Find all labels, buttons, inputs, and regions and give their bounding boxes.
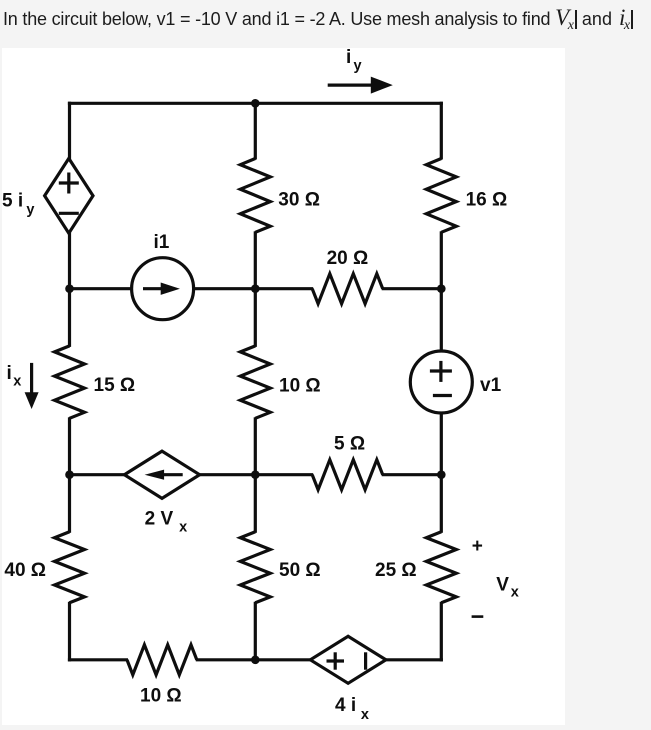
node B left row3	[65, 470, 74, 479]
svg-text:V: V	[496, 574, 509, 595]
label minus Vx	[472, 615, 484, 618]
label iy	[346, 47, 362, 74]
svg-text:20 Ω: 20 Ω	[327, 248, 369, 269]
svg-text:50 Ω: 50 Ω	[279, 560, 321, 581]
wire middle rail row3 to 50ohm	[254, 475, 257, 533]
svg-text:16 Ω: 16 Ω	[466, 190, 508, 211]
svg-text:+: +	[472, 536, 483, 557]
svg-text:x: x	[13, 374, 21, 390]
node D middle row2	[251, 284, 260, 293]
wire left rail 5iy to row2	[68, 232, 71, 289]
label ix	[7, 363, 22, 390]
wire middle node to 20ohm	[255, 287, 313, 290]
resistor 10ohm bottom	[127, 645, 197, 675]
wire top horizontal	[68, 102, 443, 105]
wire 2Vx to middle node	[198, 473, 255, 476]
wire left rail above 5iy source	[68, 102, 71, 160]
wire left rail 15ohm to row3	[68, 417, 71, 474]
svg-text:y: y	[354, 58, 362, 74]
svg-text:30 Ω: 30 Ω	[278, 190, 320, 211]
wire middle rail 10ohm to row3	[254, 417, 257, 474]
wire left rail 40ohm to bottom	[68, 602, 71, 662]
svg-text:40 Ω: 40 Ω	[4, 560, 46, 581]
wire middle node to 5ohm	[255, 473, 313, 476]
label 5iy	[2, 191, 34, 219]
wire middle rail top to 30ohm	[254, 103, 257, 159]
current source i1 (circle)	[132, 258, 194, 320]
svg-text:x: x	[361, 707, 369, 723]
svg-text:2 V: 2 V	[145, 509, 174, 530]
label 2Vx	[145, 509, 188, 536]
resistor 50ohm	[240, 532, 270, 603]
wire bottom left segment	[68, 658, 128, 661]
wire right rail top to 16ohm	[440, 102, 443, 160]
wire left rail row2 to 15ohm	[68, 289, 71, 347]
wire right rail 25ohm to bottom	[440, 602, 443, 662]
svg-text:i: i	[7, 363, 12, 384]
resistor 40ohm	[55, 532, 85, 603]
wire row3 left to 2Vx source	[70, 473, 127, 476]
wire 5ohm to right node	[382, 473, 442, 476]
resistor 25ohm	[426, 532, 456, 603]
node F middle bottom	[251, 656, 260, 665]
svg-text:15 Ω: 15 Ω	[94, 375, 136, 396]
label 4ix	[335, 695, 369, 723]
node C top middle	[251, 99, 260, 108]
voltage source v1 (circle)	[410, 351, 472, 413]
problem statement text	[3, 4, 651, 34]
resistor 16ohm	[426, 159, 456, 233]
dependent source 2Vx (diamond)	[124, 451, 199, 498]
svg-text:i: i	[346, 47, 351, 68]
resistor 5ohm	[312, 460, 383, 490]
wire row2 left to i1	[70, 287, 134, 290]
node A left row2	[65, 284, 74, 293]
wire 10ohm bottom to middle node	[196, 658, 256, 661]
svg-text:x: x	[179, 520, 187, 536]
current arrow iy	[328, 77, 393, 94]
wire i1 to middle node	[192, 287, 255, 290]
node E middle row3	[251, 470, 260, 479]
svg-text:y: y	[26, 202, 34, 218]
svg-text:25 Ω: 25 Ω	[375, 560, 417, 581]
svg-text:v1: v1	[480, 375, 502, 396]
resistor 30ohm	[240, 159, 270, 233]
resistor 20ohm	[312, 274, 383, 304]
dependent source 4ix (diamond)	[310, 636, 386, 683]
node G right row2	[437, 284, 446, 293]
wire left rail row3 to 40ohm	[68, 475, 71, 533]
svg-text:5 i: 5 i	[2, 191, 23, 212]
wire middle rail 30ohm to row2	[254, 231, 257, 288]
svg-text:i1: i1	[154, 232, 170, 253]
current arrow ix	[25, 363, 39, 409]
wire right rail v1 to row3	[440, 412, 443, 475]
svg-text:x: x	[511, 584, 519, 600]
wire middle rail row2 to 10ohm	[254, 289, 257, 347]
label Vx	[496, 574, 518, 600]
wire right rail row3 to 25ohm	[440, 475, 443, 533]
node H right row3	[437, 470, 446, 479]
wire middle node to 4ix source	[255, 658, 312, 661]
wire 4ix to bottom right corner	[384, 658, 443, 661]
svg-text:10 Ω: 10 Ω	[279, 376, 321, 397]
resistor 15ohm	[55, 346, 85, 418]
resistor 10ohm middle	[240, 346, 270, 418]
wire 20ohm to right node	[382, 287, 442, 290]
svg-text:5 Ω: 5 Ω	[334, 433, 365, 454]
wire middle rail 50ohm to bottom	[254, 602, 257, 660]
wire right rail row2 to v1	[440, 289, 443, 352]
svg-text:4 i: 4 i	[335, 695, 356, 716]
wire right rail 16ohm to row2	[440, 231, 443, 288]
svg-text:10 Ω: 10 Ω	[140, 686, 182, 707]
dependent source 5iy (diamond)	[45, 158, 93, 233]
